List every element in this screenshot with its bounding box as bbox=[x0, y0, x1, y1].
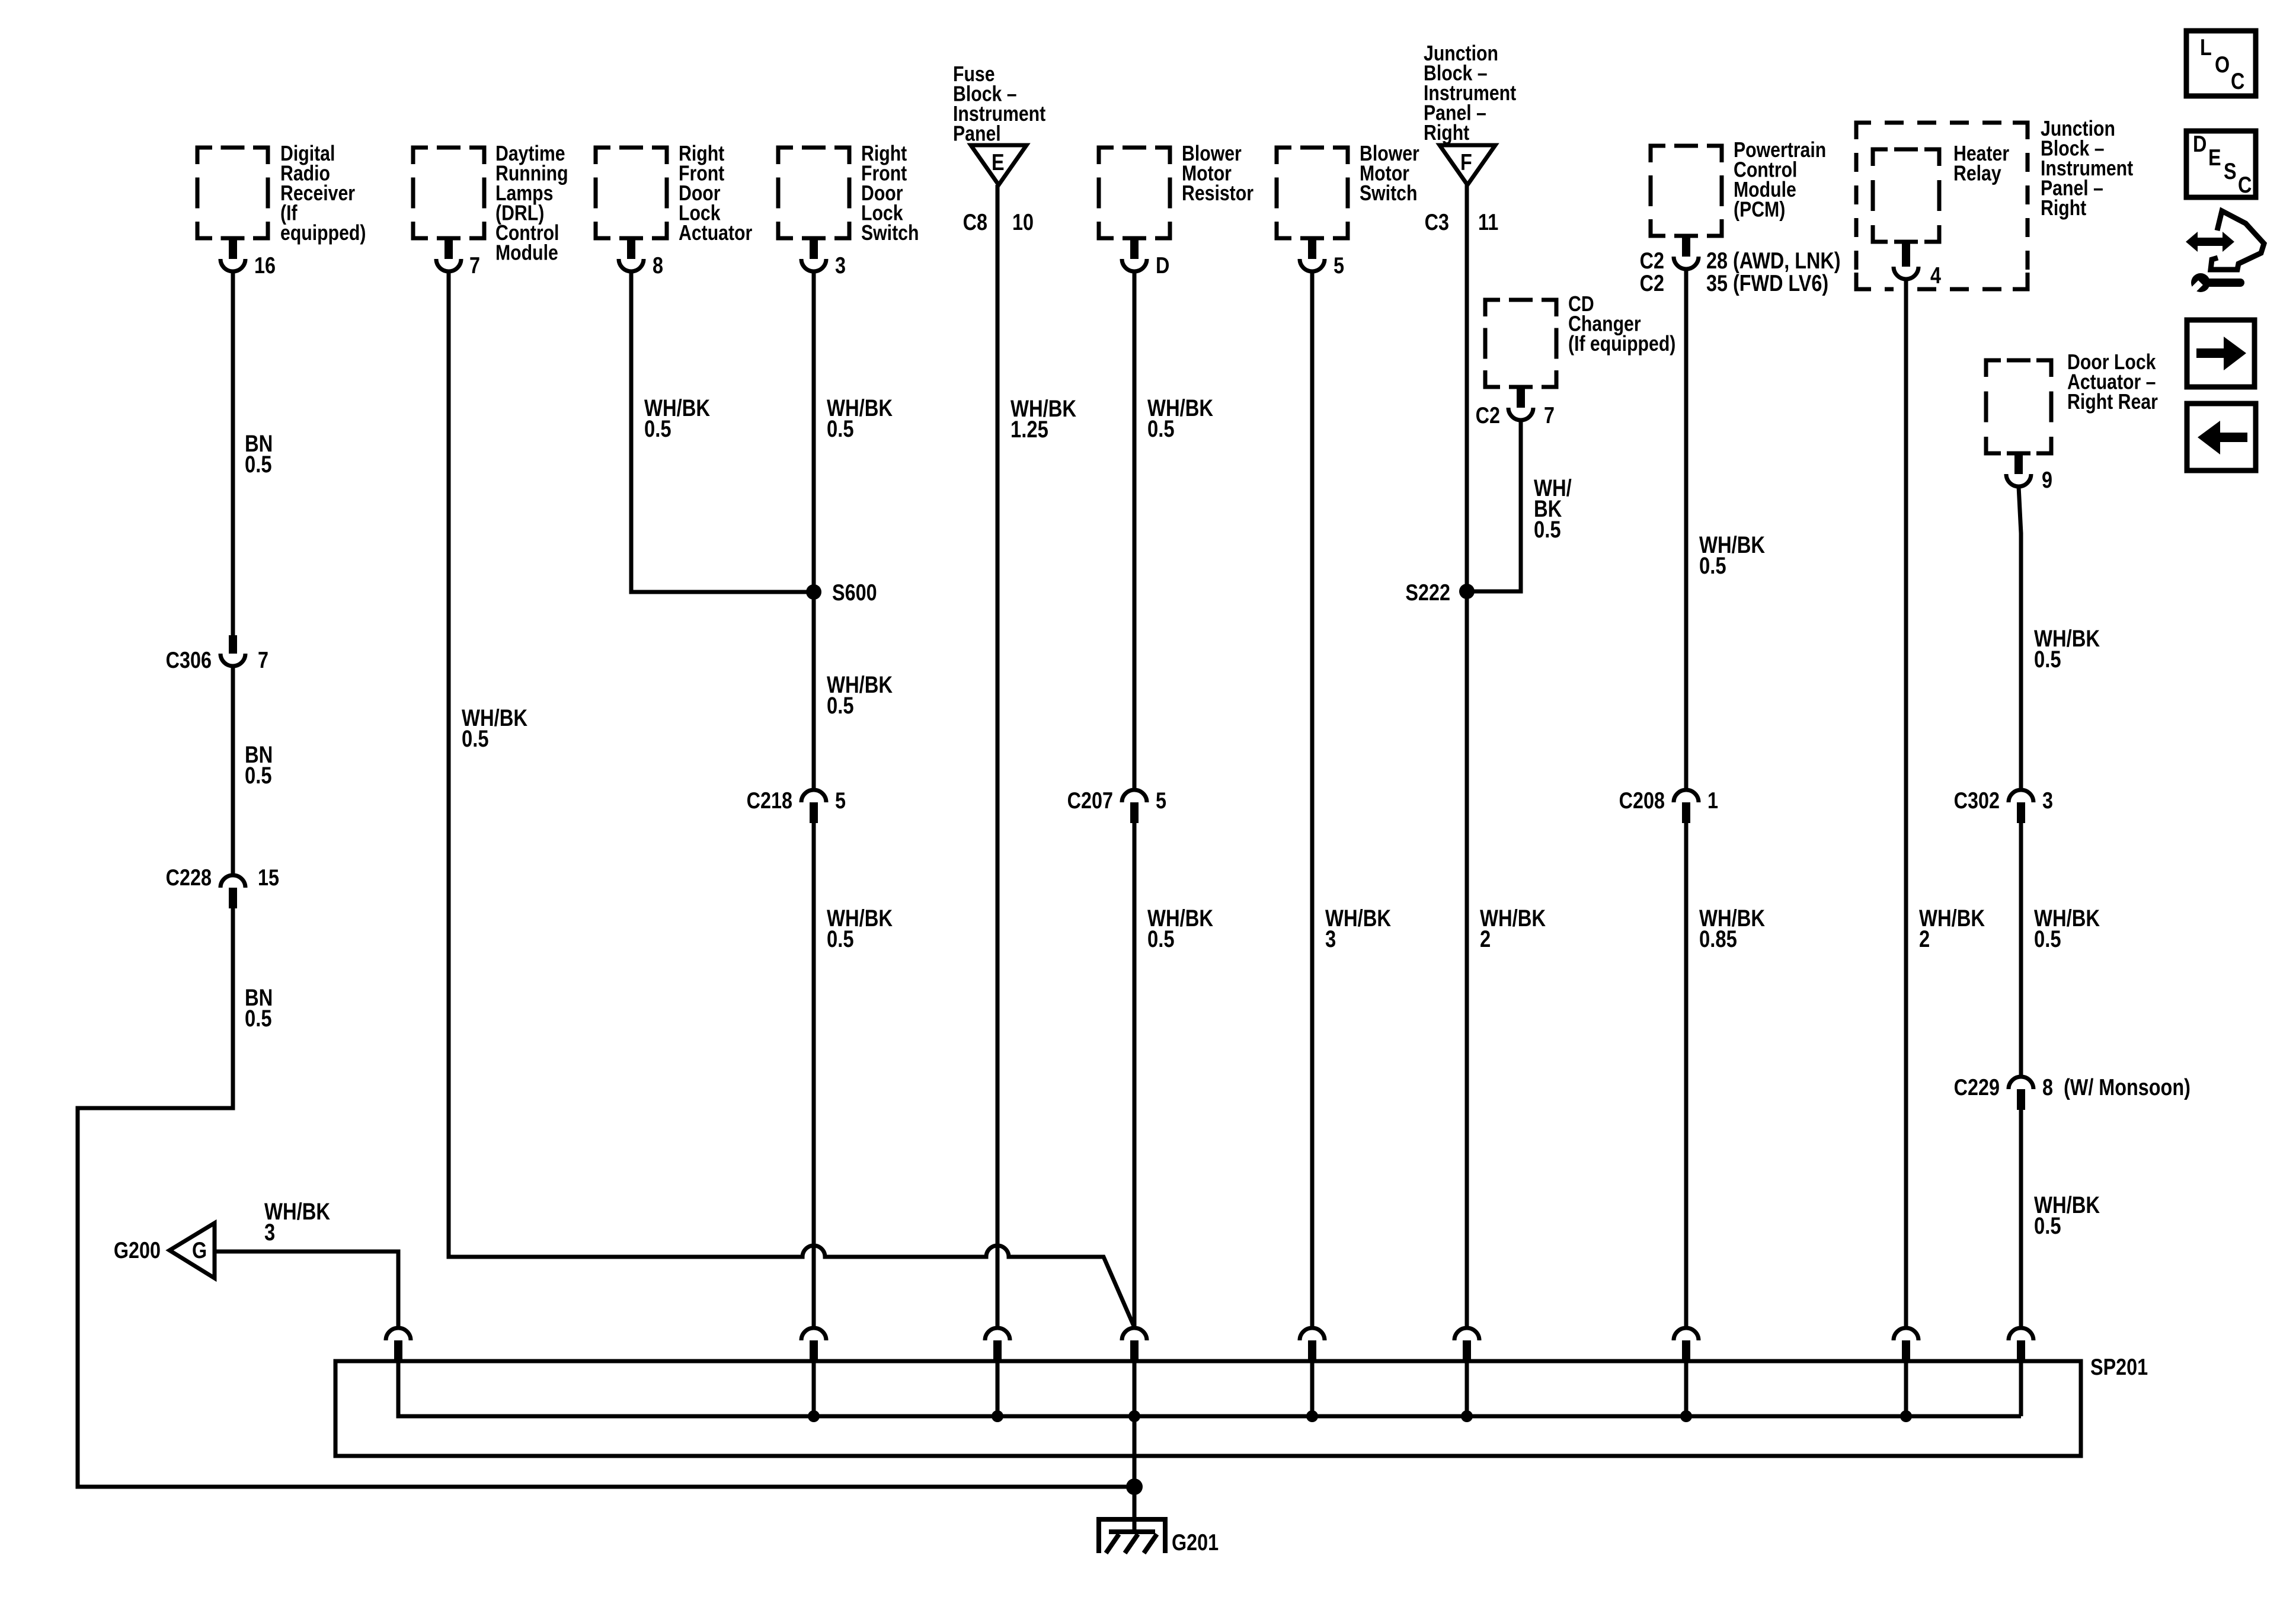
wire: Door Lock Actuator RR down to C302 bbox=[2019, 486, 2021, 788]
svg-text:1.25: 1.25 bbox=[1011, 416, 1048, 443]
SP201 entry connector (G200 wire) bbox=[386, 1328, 411, 1363]
wire label WH/BK 0.5 (col 12 upper) bbox=[2034, 625, 2100, 673]
connector pin 3 at RF Door Lock Switch bbox=[801, 238, 846, 279]
wire: C218 down to splice pack SP201 bbox=[812, 823, 816, 1328]
svg-text:Right Rear: Right Rear bbox=[2067, 391, 2158, 414]
svg-text:C8: C8 bbox=[963, 209, 987, 235]
svg-text:Right: Right bbox=[1424, 121, 1469, 145]
wire label BN 0.5 (lower, col 1) bbox=[245, 984, 273, 1032]
svg-text:equipped): equipped) bbox=[280, 222, 366, 245]
svg-text:0.5: 0.5 bbox=[245, 1005, 272, 1032]
svg-text:0.5: 0.5 bbox=[1147, 926, 1175, 952]
label: Heater Relay bbox=[1953, 142, 2009, 186]
label: Right Front Door Lock Actuator bbox=[679, 142, 752, 245]
svg-text:D: D bbox=[2193, 131, 2207, 157]
inline connector C207 pin 5 bbox=[1067, 788, 1166, 823]
svg-text:8: 8 bbox=[2042, 1074, 2053, 1100]
SP201 entry connector (door lock switch wire) bbox=[801, 1328, 826, 1363]
inline connector C218 pin 5 bbox=[747, 788, 846, 823]
svg-text:Relay: Relay bbox=[1953, 162, 2001, 185]
svg-text:Switch: Switch bbox=[861, 222, 919, 245]
svg-text:15: 15 bbox=[258, 865, 279, 891]
icon: component view (double arrow, outline and wrench) bbox=[2186, 211, 2264, 296]
label: Daytime Running Lamps (DRL) Control Module bbox=[495, 142, 568, 265]
SP201 entry connector (PCM wire) bbox=[1674, 1328, 1699, 1363]
label: Door Lock Actuator - Right Rear bbox=[2067, 351, 2158, 414]
component box: Heater Relay (inner dashed) bbox=[1873, 149, 1939, 242]
svg-text:C229: C229 bbox=[1954, 1074, 2000, 1100]
svg-text:0.5: 0.5 bbox=[2034, 1212, 2061, 1239]
svg-text:G: G bbox=[192, 1237, 207, 1263]
svg-text:0.85: 0.85 bbox=[1699, 926, 1737, 952]
inline connector C229 pin 8 (W/ Monsoon) bbox=[1954, 1074, 2191, 1110]
svg-text:E: E bbox=[992, 149, 1005, 175]
component box: Door Lock Actuator - Right Rear (dashed) bbox=[1986, 360, 2051, 453]
svg-text:Module: Module bbox=[495, 241, 558, 265]
ground connector triangle G200 bbox=[114, 1223, 215, 1278]
svg-text:0.5: 0.5 bbox=[245, 451, 272, 478]
wire: DRL module down and across with hops to blower resistor wire bbox=[449, 271, 1134, 1327]
svg-text:(If equipped): (If equipped) bbox=[1568, 332, 1675, 356]
wire label WH/BK 0.5 (col 10 upper) bbox=[1699, 532, 1766, 579]
SP201 internal bus wire bbox=[398, 1363, 2021, 1416]
svg-text:G201: G201 bbox=[1172, 1529, 1219, 1555]
component box: Blower Motor Switch (dashed) bbox=[1277, 148, 1348, 238]
inline connector C306 pin 7 bbox=[166, 635, 268, 673]
ground node dot at G201 feed bbox=[1126, 1478, 1143, 1495]
inline connector C208 pin 1 bbox=[1619, 788, 1718, 823]
label: Junction Block - Instrument Panel - Right (above F) bbox=[1424, 42, 1516, 145]
wire label WH/BK 3 (G200 wire) bbox=[264, 1198, 331, 1246]
connector pin 7 at DRL Control Module bbox=[436, 238, 480, 279]
svg-text:C302: C302 bbox=[1954, 788, 2000, 814]
SP201 entry connector (blower switch wire) bbox=[1300, 1328, 1325, 1363]
svg-text:C306: C306 bbox=[166, 647, 212, 673]
svg-text:O: O bbox=[2215, 52, 2230, 78]
inline connector C302 pin 3 bbox=[1954, 788, 2053, 823]
svg-text:28 (AWD, LNK): 28 (AWD, LNK) bbox=[1706, 248, 1841, 274]
svg-text:S222: S222 bbox=[1405, 580, 1450, 606]
SP201 entry connector (fuse block wire) bbox=[985, 1328, 1010, 1363]
wire label WH/BK 0.5 (col 4 lower) bbox=[827, 905, 893, 952]
svg-text:Switch: Switch bbox=[1360, 182, 1417, 206]
component box: Right Front Door Lock Switch (dashed) bbox=[778, 148, 849, 238]
svg-text:0.5: 0.5 bbox=[2034, 646, 2061, 673]
wire: C207 down through SP201 to ground G201 bbox=[1133, 823, 1137, 1532]
svg-text:11: 11 bbox=[1478, 209, 1498, 235]
SP201 entry connector (blower resistor wire) bbox=[1122, 1328, 1147, 1363]
wire: Blower Motor Switch down to SP201 (WH/BK 3) bbox=[1310, 271, 1315, 1328]
svg-text:C228: C228 bbox=[166, 865, 212, 891]
svg-text:0.5: 0.5 bbox=[1534, 516, 1561, 543]
wire: Heater Relay down to SP201 (WH/BK 2) bbox=[1904, 279, 1908, 1328]
svg-text:C: C bbox=[2238, 172, 2252, 198]
wire: C228 down, left rail and bottom run to ground node bbox=[78, 908, 1134, 1487]
label: Blower Motor Switch bbox=[1360, 142, 1419, 206]
svg-text:C207: C207 bbox=[1067, 788, 1113, 814]
svg-text:C: C bbox=[2231, 68, 2244, 94]
connector pin 8 at RF Door Lock Actuator bbox=[619, 238, 663, 279]
svg-text:Resistor: Resistor bbox=[1182, 182, 1253, 206]
svg-text:5: 5 bbox=[1334, 252, 1344, 279]
wire: C208 down to SP201 (WH/BK 0.85) bbox=[1684, 823, 1689, 1328]
wire label WH/BK 0.5 (col 4 below S600) bbox=[827, 671, 893, 719]
wire label BN 0.5 (upper, col 1) bbox=[245, 430, 273, 478]
svg-text:C208: C208 bbox=[1619, 788, 1665, 814]
svg-text:D: D bbox=[1156, 252, 1169, 279]
icon: LOC box bbox=[2186, 31, 2256, 96]
wire label WH/BK 2 (col 8) bbox=[1480, 905, 1546, 952]
SP201 entry connector (junction block F wire) bbox=[1454, 1328, 1479, 1363]
wire: RF Door Lock Actuator to splice S600 bbox=[631, 271, 814, 592]
wire: C306 to C228 (BN 0.5) bbox=[231, 666, 235, 873]
wire label WH/BK 0.5 (col 4 upper) bbox=[827, 395, 893, 442]
svg-text:(PCM): (PCM) bbox=[1734, 198, 1785, 222]
wire: Digital Radio Receiver pin 16 down to C306 bbox=[231, 271, 235, 635]
svg-text:5: 5 bbox=[835, 788, 846, 814]
svg-text:C2: C2 bbox=[1476, 402, 1500, 428]
svg-text:3: 3 bbox=[1325, 926, 1336, 952]
component box: Daytime Running Lamps (DRL) Control Module (dashed) bbox=[413, 148, 484, 238]
SP201 entry connector (door lock RR wire) bbox=[2009, 1328, 2033, 1363]
wire: G200 to SP201 (WH/BK 3) bbox=[215, 1251, 398, 1328]
svg-text:C2: C2 bbox=[1640, 248, 1664, 274]
svg-text:Panel: Panel bbox=[953, 122, 1001, 146]
fuse block triangle E bbox=[971, 145, 1027, 185]
inline connector C228 pin 15 bbox=[166, 865, 279, 908]
wire: PCM down to C208 bbox=[1684, 269, 1689, 788]
wire: junction block F down to SP201 (WH/BK 2) bbox=[1465, 185, 1469, 1328]
icon: right arrow box bbox=[2187, 320, 2255, 387]
wire label BN 0.5 (middle, col 1) bbox=[245, 741, 273, 789]
svg-text:4: 4 bbox=[1930, 263, 1941, 289]
wire label WH/BK 0.5 (col 12 lower) bbox=[2034, 1192, 2100, 1239]
component box: Right Front Door Lock Actuator (dashed) bbox=[596, 148, 667, 238]
svg-text:0.5: 0.5 bbox=[644, 415, 671, 442]
wire label WH/BK 0.5 (col 12 middle) bbox=[2034, 905, 2100, 952]
svg-text:35 (FWD LV6): 35 (FWD LV6) bbox=[1706, 270, 1828, 296]
connector pin 5 at Blower Motor Switch bbox=[1300, 238, 1344, 279]
label: Digital Radio Receiver (If equipped) bbox=[280, 142, 366, 245]
svg-text:3: 3 bbox=[2042, 788, 2053, 814]
svg-text:C3: C3 bbox=[1425, 209, 1449, 235]
svg-text:16: 16 bbox=[254, 252, 276, 279]
connector C2 pins 28/35 at PCM bbox=[1640, 236, 1841, 296]
svg-text:8: 8 bbox=[653, 252, 663, 279]
svg-text:S600: S600 bbox=[832, 580, 877, 606]
svg-text:C218: C218 bbox=[747, 788, 792, 814]
svg-text:(W/ Monsoon): (W/ Monsoon) bbox=[2064, 1074, 2191, 1100]
svg-text:S: S bbox=[2224, 158, 2237, 184]
wire label WH/BK 0.5 (col 6 lower) bbox=[1147, 905, 1214, 952]
component box: Powertrain Control Module PCM (dashed) bbox=[1651, 146, 1722, 236]
svg-text:7: 7 bbox=[258, 647, 268, 673]
wire label WH/BK 1.25 (col 5) bbox=[1011, 395, 1077, 443]
svg-text:1: 1 bbox=[1707, 788, 1718, 814]
splice pack SP201 box bbox=[335, 1354, 2148, 1456]
wire label WH/BK 3 (col 7) bbox=[1325, 905, 1392, 952]
wire label WH/BK 0.85 (col 10 lower) bbox=[1699, 905, 1766, 952]
label: Junction Block - Instrument Panel - Right (right of outer box) bbox=[2041, 117, 2133, 220]
svg-text:C2: C2 bbox=[1640, 270, 1664, 296]
label: CD Changer (If equipped) bbox=[1568, 293, 1675, 356]
svg-text:Actuator: Actuator bbox=[679, 222, 752, 245]
svg-text:E: E bbox=[2208, 145, 2221, 171]
svg-text:SP201: SP201 bbox=[2090, 1354, 2148, 1380]
svg-text:2: 2 bbox=[1480, 926, 1491, 952]
svg-text:3: 3 bbox=[835, 252, 846, 279]
wire: CD Changer down to splice S222 (WH/BK 0.5) bbox=[1467, 420, 1521, 591]
label: Fuse Block - Instrument Panel bbox=[953, 63, 1045, 146]
connector pin 4 at Heater Relay bbox=[1894, 242, 1941, 289]
svg-text:0.5: 0.5 bbox=[245, 762, 272, 789]
svg-text:5: 5 bbox=[1156, 788, 1166, 814]
label: Powertrain Control Module (PCM) bbox=[1734, 139, 1826, 222]
icon: left arrow box bbox=[2187, 404, 2256, 470]
connector pin 16 at Digital Radio Receiver bbox=[220, 238, 276, 279]
label: Blower Motor Resistor bbox=[1182, 142, 1253, 206]
ground symbol G201 bbox=[1096, 1519, 1219, 1555]
svg-text:3: 3 bbox=[264, 1219, 275, 1246]
wire label WH/ BK 0.5 (col 9) bbox=[1534, 475, 1572, 543]
wire label WH/BK 0.5 (col 6 upper) bbox=[1147, 395, 1214, 442]
component box: Blower Motor Resistor (dashed) bbox=[1099, 148, 1170, 238]
svg-text:2: 2 bbox=[1919, 926, 1930, 952]
svg-text:Right: Right bbox=[2041, 197, 2086, 220]
svg-text:7: 7 bbox=[469, 252, 480, 279]
svg-text:10: 10 bbox=[1012, 209, 1034, 235]
connector pin 9 at Door Lock Actuator Right Rear bbox=[2006, 453, 2052, 493]
wire: C229 down to SP201 bbox=[2019, 1110, 2023, 1328]
wire label WH/BK 2 (col 11) bbox=[1919, 905, 1985, 952]
wire: C302 down to C229 bbox=[2019, 823, 2023, 1076]
wire: fuse block E down to SP201 (WH/BK 1.25) bbox=[996, 185, 1000, 1328]
splice S222 bbox=[1405, 580, 1475, 606]
svg-text:9: 9 bbox=[2042, 467, 2052, 493]
svg-text:7: 7 bbox=[1544, 402, 1555, 428]
SP201 bus junction dots bbox=[808, 1410, 1912, 1422]
wire label WH/BK 0.5 (col 3) bbox=[644, 395, 711, 442]
icon: DESC box bbox=[2186, 131, 2256, 198]
connector pin D at Blower Motor Resistor bbox=[1122, 238, 1169, 279]
svg-text:0.5: 0.5 bbox=[1699, 552, 1726, 579]
component box: CD Changer (dashed) bbox=[1485, 300, 1556, 387]
svg-text:0.5: 0.5 bbox=[827, 415, 854, 442]
svg-text:L: L bbox=[2200, 34, 2212, 60]
component box: Digital Radio Receiver (dashed) bbox=[197, 148, 268, 238]
svg-text:G200: G200 bbox=[114, 1237, 161, 1263]
svg-text:F: F bbox=[1460, 149, 1472, 175]
svg-text:0.5: 0.5 bbox=[2034, 926, 2061, 952]
connector C2 pin 7 at CD Changer bbox=[1476, 387, 1555, 428]
junction block triangle F bbox=[1440, 145, 1495, 185]
SP201 entry connector (heater relay wire) bbox=[1894, 1328, 1918, 1363]
svg-text:0.5: 0.5 bbox=[462, 725, 489, 752]
svg-text:0.5: 0.5 bbox=[827, 926, 854, 952]
pin labels C3 / 11 at junction block F bbox=[1425, 209, 1499, 235]
component box: Junction Block - Instrument Panel - Right (outer dashed) bbox=[1856, 123, 2028, 289]
svg-text:0.5: 0.5 bbox=[1147, 415, 1175, 442]
pin labels C8 / 10 at fuse block bbox=[963, 209, 1034, 235]
splice S600 bbox=[806, 580, 877, 606]
svg-text:0.5: 0.5 bbox=[827, 692, 854, 719]
wire: RF Door Lock Switch down to C218 bbox=[812, 271, 816, 788]
wire: Blower Motor Resistor down to C207 bbox=[1133, 271, 1137, 788]
wire label WH/BK 0.5 (col 2) bbox=[462, 705, 528, 752]
label: Right Front Door Lock Switch bbox=[861, 142, 919, 245]
